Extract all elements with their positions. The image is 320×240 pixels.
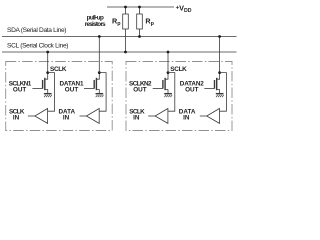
device 1 dash-dot border: [6, 62, 113, 131]
svg-text:IN: IN: [63, 115, 70, 122]
buffer SCLK IN (device 1) with wires: [28, 73, 55, 124]
resistor Rp (left, pull-up for SCL): [123, 7, 129, 37]
wire: SDA bus line: [2, 36, 237, 38]
ground (SCLKN2 source): [164, 94, 172, 97]
ground (SCLKN1 source): [44, 94, 52, 97]
svg-text:OUT: OUT: [65, 87, 79, 94]
transistor SCLKN2: [153, 71, 170, 93]
resistor Rp (right, pull-up for SDA): [137, 7, 143, 37]
junction on SCL (device 1): [46, 51, 49, 54]
wire: SDA tap device 2: [219, 37, 221, 73]
buffer SCLK IN (device 2) with wires: [148, 73, 175, 124]
wire: +VDD supply rail: [107, 6, 174, 8]
junction on SDA (device 2): [218, 35, 221, 38]
svg-text:IN: IN: [133, 115, 140, 122]
svg-text:IN: IN: [183, 115, 190, 122]
junction: left Rp at SCL: [124, 51, 127, 54]
svg-text:OUT: OUT: [133, 87, 147, 94]
transistor SCLKN1: [32, 71, 49, 93]
wire: left Rp down to SCL (crosses SDA): [125, 37, 127, 53]
wire: SCL tap device 1: [47, 52, 49, 73]
transistor DATAN1: [84, 71, 101, 93]
svg-text:SDA (Serial Data Line): SDA (Serial Data Line): [7, 27, 67, 34]
junction on SDA (device 1): [98, 35, 101, 38]
svg-text:resistors: resistors: [85, 21, 106, 28]
ground (DATAN1 source): [96, 94, 104, 97]
device 2 dash-dot border: [126, 62, 232, 131]
svg-text:SCL (Serial Clock Line): SCL (Serial Clock Line): [7, 43, 69, 50]
wire: SCL tap device 2: [167, 52, 169, 73]
svg-text:Rp: Rp: [112, 17, 121, 28]
junction on SCL (device 2): [167, 51, 170, 54]
junction: right Rp at SDA: [138, 35, 141, 38]
buffer DATA IN (device 1) with wires: [80, 73, 107, 124]
transistor DATAN2: [204, 71, 221, 93]
svg-text:SCLK: SCLK: [50, 66, 67, 73]
svg-text:SCLK: SCLK: [170, 66, 187, 73]
junction: right Rp at VDD rail: [138, 6, 141, 9]
svg-text:OUT: OUT: [13, 87, 27, 94]
junction: left Rp at VDD rail: [124, 6, 127, 9]
svg-text:OUT: OUT: [185, 87, 199, 94]
ground (DATAN2 source): [216, 94, 224, 97]
svg-text:Rp: Rp: [145, 17, 154, 28]
svg-text:+VDD: +VDD: [176, 3, 192, 14]
wire: SCL bus line: [2, 51, 237, 53]
buffer DATA IN (device 2) with wires: [200, 73, 227, 124]
wire: SDA tap device 1: [98, 37, 100, 73]
svg-text:IN: IN: [13, 115, 20, 122]
